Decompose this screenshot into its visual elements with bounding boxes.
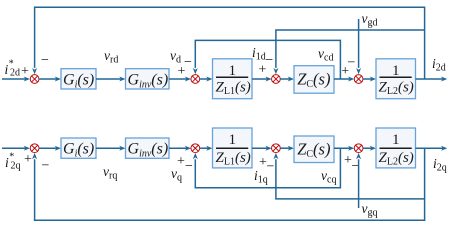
wire S1d to Gi — [39, 77, 61, 82]
svg-text:vrd: vrd — [104, 48, 118, 66]
block 1/ZL1(s) row1 — [213, 59, 253, 99]
wire ZL1 to S3q, node i1q — [252, 146, 272, 151]
svg-text:vd: vd — [170, 48, 181, 66]
input vgd vertical with arrow — [356, 19, 361, 74]
svg-text:vcd: vcd — [318, 46, 333, 64]
svg-text:ZC(s): ZC(s) — [297, 70, 330, 91]
svg-text:vgd: vgd — [362, 11, 378, 29]
svg-text:−: − — [185, 159, 193, 174]
block Ginv(s) row2 — [126, 138, 170, 160]
wire ZC to S4q, node vcq with tap — [334, 146, 354, 151]
svg-text:vgq: vgq — [362, 201, 378, 219]
svg-text:+: + — [178, 64, 186, 79]
wire S4d to ZL2 block — [363, 77, 376, 82]
input vgq vertical with arrow — [356, 153, 361, 208]
block Gi(s) row1 — [61, 69, 96, 91]
block Ginv(s) row1 — [126, 69, 170, 91]
wire S3d to ZC block — [280, 77, 294, 82]
block Gi(s) row2 — [61, 138, 96, 160]
block 1/ZL1(s) row2 — [213, 128, 253, 168]
svg-text:+: + — [341, 64, 349, 79]
svg-text:−: − — [41, 53, 49, 68]
wire feedback i2d to S3d — [273, 30, 424, 74]
wire output i2q — [416, 146, 448, 151]
svg-text:i2d: i2d — [432, 56, 446, 74]
block 1/ZL2(s) row1 — [376, 59, 416, 99]
wire Ginv to S2d, node vd — [169, 77, 191, 82]
svg-text:1: 1 — [229, 131, 237, 148]
wire feedback vcq to S2q — [193, 148, 341, 188]
svg-text:i1d: i1d — [252, 45, 266, 63]
summing junction S2q — [191, 144, 200, 153]
summing junction S2d — [191, 75, 200, 84]
wire output i2d — [416, 77, 448, 82]
summing junction S3q — [272, 144, 281, 153]
summing junction S1q — [30, 144, 39, 153]
svg-text:i2q: i2q — [433, 156, 447, 174]
wire feedback vcd to S2d — [193, 40, 341, 79]
svg-text:1: 1 — [392, 62, 400, 79]
svg-text:1: 1 — [229, 62, 237, 79]
block ZC(s) row2 — [294, 136, 334, 163]
svg-text:i*2d: i*2d — [5, 59, 20, 79]
summing junction S4d — [354, 75, 363, 84]
wire input i*2q — [2, 146, 30, 151]
summing junction S4q — [354, 144, 363, 153]
wire Gi to Ginv, node vrd — [96, 77, 126, 82]
wire S1q to Gi — [39, 146, 61, 151]
wire Gi to Ginv row2 — [96, 146, 126, 151]
svg-text:vrq: vrq — [103, 164, 117, 182]
wire outer feedback i2d top — [32, 7, 425, 79]
svg-text:−: − — [267, 160, 275, 175]
svg-text:1: 1 — [392, 131, 400, 148]
svg-text:+: + — [21, 64, 29, 79]
svg-text:ZC(s): ZC(s) — [297, 139, 330, 160]
wire S2d to ZL1 block — [200, 77, 213, 82]
wire Ginv to S2q, node vq — [169, 146, 191, 151]
svg-text:−: − — [265, 53, 273, 68]
summing junction S3d — [272, 75, 281, 84]
block ZC(s) row1 — [294, 66, 334, 94]
svg-text:Gi(s): Gi(s) — [63, 141, 94, 160]
svg-text:Gi(s): Gi(s) — [63, 71, 94, 90]
block 1/ZL2(s) row2 — [376, 128, 416, 168]
svg-text:−: − — [42, 159, 50, 174]
svg-text:+: + — [259, 63, 267, 78]
wire outer feedback i2q bottom — [32, 148, 425, 220]
wire S3q to ZC block row2 — [280, 146, 294, 151]
svg-text:vcq: vcq — [321, 168, 336, 186]
wire ZC to S4d, node vcd with tap — [334, 77, 354, 82]
wire input i*2d — [2, 77, 30, 82]
summing junction S1d — [30, 75, 39, 84]
svg-text:+: + — [24, 152, 32, 167]
wire ZL1 to S3d, node i1d — [252, 77, 272, 82]
svg-text:i*2q: i*2q — [5, 152, 20, 172]
wire S4q to ZL2 block row2 — [363, 146, 376, 151]
wire feedback i2q to S3q — [273, 153, 424, 199]
svg-text:+: + — [177, 154, 185, 169]
wire S2q to ZL1 block row2 — [200, 146, 213, 151]
